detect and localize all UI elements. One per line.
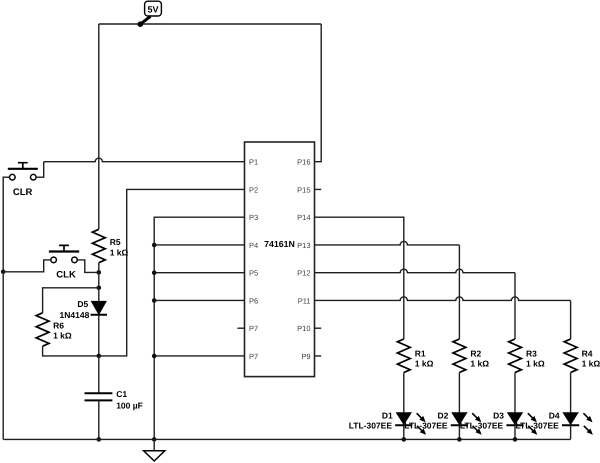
svg-text:1 kΩ: 1 kΩ	[53, 331, 72, 341]
wire P6 to ground bus	[154, 299, 244, 301]
wire R6 top branch	[43, 288, 99, 313]
junction D2 on rail	[457, 437, 462, 442]
ground	[144, 439, 165, 461]
resistor R4	[564, 339, 600, 373]
pin P4 label (left row 4)	[249, 241, 258, 250]
pin P12 label (right row 5)	[297, 269, 310, 278]
wire P5 to ground bus	[154, 272, 244, 274]
LED D1 LTL-307EE	[349, 410, 426, 435]
svg-text:P7: P7	[249, 352, 258, 361]
svg-text:P11: P11	[298, 296, 311, 305]
LED D4 LTL-307EE	[516, 410, 593, 435]
svg-text:LTL-307EE: LTL-307EE	[349, 420, 393, 430]
wire node to P2 drop	[99, 189, 245, 355]
wire bottom ground rail	[3, 438, 570, 440]
wire LED D3 to rail	[514, 425, 516, 439]
svg-text:CLR: CLR	[13, 187, 33, 198]
wire 5V top rail	[99, 23, 321, 25]
pin stub P10 unconnected	[315, 327, 322, 329]
junction bus / P5	[152, 270, 157, 275]
svg-text:LTL-307EE: LTL-307EE	[460, 420, 504, 430]
wire LED D4 to rail	[570, 425, 572, 439]
svg-text:D5: D5	[77, 299, 88, 309]
wire P3 to ground bus	[154, 217, 244, 439]
svg-text:P16: P16	[297, 158, 310, 167]
pin P15 label (right row 2)	[297, 185, 310, 194]
junction C1 bottom on rail	[97, 437, 102, 442]
junction bus / P6	[152, 298, 157, 303]
svg-text:CLK: CLK	[56, 270, 76, 281]
svg-text:R1: R1	[415, 348, 426, 358]
junction left rail / CLK	[1, 270, 6, 275]
pin P10 label (right row 7)	[297, 324, 310, 333]
svg-text:P1: P1	[249, 158, 258, 167]
wire R5 bottom to junction	[98, 263, 100, 273]
junction bus on bottom rail	[152, 437, 157, 442]
wire R4 to LED D4	[570, 373, 572, 413]
wire junction down to R6 tap	[98, 272, 100, 287]
junction bus / P7	[152, 354, 157, 359]
pushbutton CLR	[8, 163, 38, 198]
svg-text:5V: 5V	[147, 4, 158, 14]
junction D5 cathode / R6 / P2 / C1	[97, 354, 102, 359]
pin P13 label (right row 4)	[297, 241, 310, 250]
svg-text:R6: R6	[53, 321, 64, 331]
svg-text:P6: P6	[249, 296, 258, 305]
pin stub P15 unconnected	[315, 188, 322, 190]
pin P5 label (left row 5)	[249, 269, 258, 278]
diode D5 1N4148	[60, 288, 107, 356]
svg-text:D3: D3	[493, 410, 504, 420]
pin P3 label (left row 3)	[249, 213, 258, 222]
svg-text:P7: P7	[249, 324, 258, 333]
resistor R1	[397, 339, 433, 373]
svg-text:100 µF: 100 µF	[116, 401, 143, 411]
wire R3 to LED D3	[514, 373, 516, 413]
pin P7 label (left row 8)	[249, 352, 258, 361]
svg-text:1 kΩ: 1 kΩ	[470, 358, 489, 368]
pin P7 label (left row 7)	[249, 324, 258, 333]
svg-text:74161N: 74161N	[264, 239, 295, 249]
svg-text:D2: D2	[438, 410, 449, 420]
capacitor C1	[85, 356, 143, 440]
pin P14 label (right row 3)	[297, 213, 310, 222]
svg-text:P9: P9	[301, 352, 310, 361]
junction D3 on rail	[513, 437, 518, 442]
wire P13 to R2 column (hop over R1)	[315, 241, 460, 339]
pin P2 label (left row 2)	[249, 185, 258, 194]
svg-text:D4: D4	[549, 410, 560, 420]
junction D5 anode / R6 top	[97, 286, 102, 291]
wire P12 to R3 column (hops over R1 R2)	[315, 269, 516, 339]
svg-text:1 kΩ: 1 kΩ	[110, 247, 129, 257]
svg-text:P2: P2	[249, 185, 258, 194]
resistor R2	[453, 339, 489, 373]
junction D1 on rail	[402, 437, 407, 442]
wire P11 to R4 column (hops over R1 R2 R3)	[315, 297, 571, 339]
svg-text:LTL-307EE: LTL-307EE	[516, 420, 560, 430]
wire CLK right pin to R5 bottom node	[77, 260, 99, 273]
resistor R3	[509, 339, 545, 373]
wire CLR left pin to left rail	[3, 177, 9, 272]
wire P7 (pin 8) to ground bus	[154, 355, 244, 357]
wire CLK left pin to left rail	[3, 260, 51, 272]
svg-text:LTL-307EE: LTL-307EE	[404, 420, 448, 430]
pushbutton CLK	[49, 245, 79, 280]
LED D3 LTL-307EE	[460, 410, 537, 435]
svg-text:P5: P5	[249, 269, 258, 278]
svg-text:1 kΩ: 1 kΩ	[415, 358, 434, 368]
wire R2 to LED D2	[458, 373, 460, 413]
pin P1 label (left row 1)	[249, 158, 258, 167]
wire LED D1 to rail	[403, 425, 405, 439]
svg-text:1 kΩ: 1 kΩ	[526, 358, 545, 368]
svg-text:R4: R4	[582, 348, 593, 358]
svg-text:D1: D1	[382, 410, 393, 420]
pin P16 label (right row 1)	[297, 158, 310, 167]
LED D2 LTL-307EE	[404, 410, 481, 435]
svg-text:C1: C1	[116, 389, 127, 399]
svg-text:R5: R5	[110, 237, 121, 247]
wire P4 to ground bus	[154, 244, 244, 246]
wire P16 to 5V top rail	[315, 24, 322, 162]
svg-text:R3: R3	[526, 348, 537, 358]
pin P11 label (right row 6)	[298, 296, 311, 305]
op-amp U1 74161N counter IC	[245, 142, 315, 377]
svg-text:P3: P3	[249, 213, 258, 222]
svg-text:P4: P4	[249, 241, 258, 250]
svg-text:1N4148: 1N4148	[60, 310, 90, 320]
svg-text:P15: P15	[297, 185, 310, 194]
svg-text:P10: P10	[297, 324, 310, 333]
wire CLR right pin to IC pin P1 (hop over 5V rail)	[36, 158, 244, 177]
junction R5 / CLK / D5	[97, 270, 102, 275]
junction bus / P4	[152, 243, 157, 248]
wire P14 to R1 column	[315, 217, 404, 339]
svg-text:P14: P14	[297, 213, 310, 222]
wire 5V left vertical to R5	[98, 24, 100, 229]
5V supply	[138, 1, 162, 27]
pin P6 label (left row 6)	[249, 296, 258, 305]
svg-text:P13: P13	[297, 241, 310, 250]
pin P9 label (right row 8)	[301, 352, 310, 361]
resistor R6	[36, 313, 72, 346]
wire left rail down to bottom rail	[2, 272, 4, 440]
svg-text:R2: R2	[470, 348, 481, 358]
svg-text:P12: P12	[297, 269, 310, 278]
svg-text:1 kΩ: 1 kΩ	[582, 358, 600, 368]
pin stub P7 unconnected	[238, 327, 245, 329]
wire R6 bottom branch	[43, 346, 99, 356]
wire LED D2 to rail	[458, 425, 460, 439]
resistor R5	[92, 229, 128, 262]
pin stub P9 unconnected	[315, 355, 322, 357]
wire R1 to LED D1	[403, 373, 405, 413]
